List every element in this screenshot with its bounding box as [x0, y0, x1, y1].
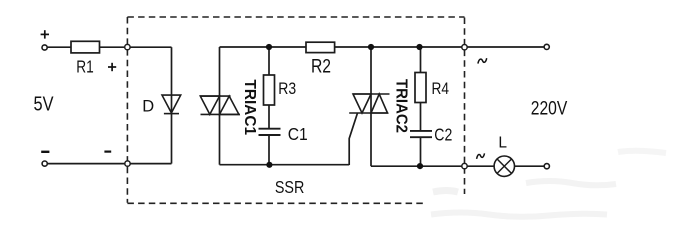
- tilde mark top (AC): [478, 58, 487, 63]
- triac TRIAC1: [200, 96, 240, 114]
- resistor R2: [306, 42, 335, 52]
- junction dot: R4 top node: [416, 44, 422, 50]
- minus mark inside border: [104, 151, 111, 153]
- svg-text:C1: C1: [288, 124, 308, 144]
- SSR dashed enclosure: top edge: [127, 16, 464, 18]
- terminal: AC top: [544, 44, 549, 49]
- svg-text:R2: R2: [311, 57, 331, 78]
- triac TRIAC2: [349, 94, 389, 113]
- svg-text:220V: 220V: [531, 97, 568, 119]
- resistor R3: [264, 75, 275, 105]
- wire: TRIAC2 gate lead: [349, 113, 357, 165]
- plus mark inside border: [108, 63, 116, 71]
- border node: input -: [125, 161, 130, 166]
- svg-text:D: D: [142, 98, 154, 116]
- terminal: + input: [42, 45, 47, 50]
- junction dot: R3 top node: [266, 44, 272, 50]
- terminal: - input: [42, 161, 47, 166]
- svg-text:C2: C2: [434, 124, 452, 144]
- wire: top bus from R2 to AC terminal: [335, 46, 547, 48]
- wire: TRIAC1 branch vertical: [219, 47, 221, 165]
- SSR dashed enclosure: right edge: [464, 18, 466, 195]
- wire: diode branch vertical: [171, 47, 173, 163]
- wire: + terminal to R1: [44, 46, 71, 48]
- border node: output top: [462, 45, 467, 50]
- border node: input +: [125, 44, 130, 49]
- plus mark at input terminal: [41, 30, 49, 38]
- wire: bottom bus TRIAC1 to gate corner: [220, 164, 350, 166]
- resistor R1: [71, 41, 100, 53]
- capacitor C1: [259, 129, 281, 135]
- diode D (LED of opto-coupler): [162, 95, 181, 114]
- svg-text:TRIAC2: TRIAC2: [393, 79, 410, 133]
- minus mark at input terminal: [41, 151, 49, 153]
- wire: top bus from TRIAC1 to R2: [220, 46, 307, 48]
- SSR dashed enclosure: bottom edge: [127, 202, 423, 204]
- tilde mark bottom (AC): [477, 153, 485, 159]
- wire: R3/C1 snubber branch: [268, 47, 270, 165]
- svg-text:R3: R3: [278, 79, 296, 98]
- svg-text:R1: R1: [76, 56, 94, 76]
- wire: bottom left return to - terminal: [45, 163, 172, 165]
- svg-text:5V: 5V: [34, 92, 54, 115]
- terminal: AC bottom: [544, 164, 549, 169]
- watermark smudge: [431, 151, 666, 217]
- wire: R4/C2 snubber branch: [420, 47, 422, 166]
- svg-text:R4: R4: [431, 79, 449, 98]
- junction dot: TRIAC2 top node: [368, 44, 374, 50]
- svg-text:SSR: SSR: [275, 177, 305, 197]
- junction dot: C1 bottom node: [266, 162, 272, 168]
- SSR dashed enclosure: left edge: [126, 17, 128, 203]
- wire: bottom bus TRIAC2 to AC terminal: [371, 165, 547, 167]
- capacitor C2: [410, 131, 432, 137]
- svg-text:L: L: [498, 135, 507, 152]
- junction dot: C2 bottom node: [417, 163, 423, 169]
- svg-text:TRIAC1: TRIAC1: [241, 80, 258, 136]
- lamp L: [494, 156, 514, 176]
- wire: R1 to diode-branch corner: [100, 46, 172, 48]
- wire: TRIAC2 main vertical: [370, 47, 372, 166]
- resistor R4: [415, 73, 426, 103]
- border node: output bottom: [462, 163, 467, 168]
